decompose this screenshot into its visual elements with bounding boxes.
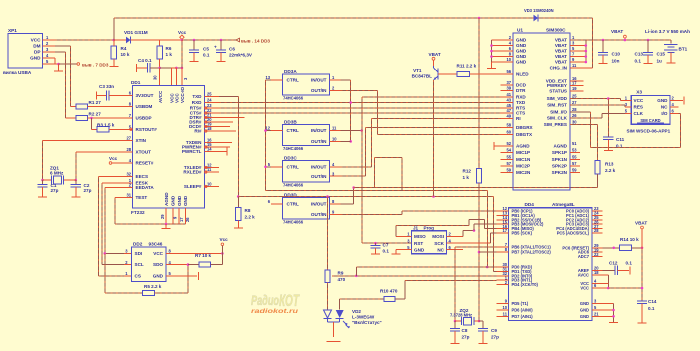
svg-text:VD3 1SM0240N: VD3 1SM0240N [524, 8, 554, 13]
ground below C11 [604, 150, 613, 152]
capacitor C7 0.1 [371, 243, 390, 254]
wire CTS [219, 112, 501, 114]
svg-text:DBGRX: DBGRX [516, 125, 534, 130]
svg-text:L-3WEGW: L-3WEGW [352, 315, 375, 320]
svg-text:1 k: 1 k [166, 52, 173, 57]
svg-text:28: 28 [126, 147, 131, 152]
svg-text:59: 59 [506, 168, 511, 173]
svg-text:выв . 7 DD3: выв . 7 DD3 [82, 63, 109, 68]
svg-text:93C46: 93C46 [149, 242, 163, 247]
svg-text:56: 56 [506, 69, 511, 74]
wire RTS [219, 107, 501, 109]
svg-text:R7 10 k: R7 10 k [195, 253, 212, 258]
wire XP1 DM vertical [55, 46, 71, 107]
svg-text:SIM_RST: SIM_RST [547, 103, 567, 108]
node DD2 SDI junction [103, 252, 106, 255]
wire VCC from XP1 pin1 [55, 39, 114, 41]
svg-text:R14 10 k: R14 10 k [620, 237, 639, 242]
wire VD3 to CHG_IN [570, 18, 592, 68]
capacitor C6 22mk electrolytic [214, 39, 253, 61]
wire DD3B in [341, 129, 363, 132]
svg-text:C5: C5 [203, 47, 209, 52]
svg-text:VCC: VCC [31, 38, 42, 43]
svg-text:BC847BL: BC847BL [412, 74, 433, 79]
svg-text:17: 17 [179, 217, 184, 222]
node PB7 junction [478, 251, 497, 254]
svg-text:R5 2.2 k: R5 2.2 k [144, 284, 162, 289]
svg-text:74HC4066: 74HC4066 [283, 219, 304, 224]
svg-text:PB5 (SCK): PB5 (SCK) [512, 231, 533, 236]
svg-text:GND: GND [183, 195, 188, 206]
wire DD1 RXD to U1 TXD [219, 102, 501, 104]
svg-text:OUT/IN: OUT/IN [311, 139, 327, 144]
resistor R9 470 [325, 197, 346, 310]
svg-text:28: 28 [572, 107, 577, 112]
svg-text:R2 27: R2 27 [89, 112, 102, 117]
IC DD1 FT232BM [126, 75, 219, 222]
svg-text:GND: GND [414, 247, 425, 252]
svg-text:SIM_PRES: SIM_PRES [544, 122, 567, 127]
svg-text:59: 59 [572, 168, 577, 173]
resistor R13 2.2k [595, 161, 616, 188]
wire Vcc down to rail [181, 40, 183, 68]
wire SIM_PRES to R13 [570, 124, 598, 160]
svg-text:Радио: Радио [251, 293, 279, 308]
wire DD3D out to PB0 [341, 211, 497, 215]
svg-text:10: 10 [207, 182, 212, 187]
IC DD2 93C46 [125, 242, 171, 282]
svg-text:27p: 27p [51, 188, 59, 193]
wire XTIN to crystal [43, 141, 133, 181]
svg-text:CS: CS [135, 274, 141, 279]
svg-text:47: 47 [506, 108, 511, 113]
svg-text:GND: GND [516, 38, 527, 43]
wire VCC rail above DD1 [160, 67, 184, 70]
svg-text:VBAT: VBAT [555, 60, 567, 65]
svg-text:X3: X3 [636, 90, 642, 95]
svg-text:AVCC: AVCC [158, 90, 163, 103]
resistor R5 2.2k [105, 253, 188, 295]
svg-text:C11: C11 [616, 137, 625, 142]
capacitor C12 0.1 [603, 261, 633, 276]
wire U1 VDD_EXT/PWRKEY/STATUS stubs [570, 81, 584, 91]
svg-text:26: 26 [572, 113, 577, 118]
ground below C5 [190, 61, 199, 63]
svg-text:"Вкл/Статус": "Вкл/Статус" [352, 320, 382, 325]
svg-text:51: 51 [572, 141, 577, 146]
svg-text:DD3C: DD3C [284, 156, 297, 161]
ground below C8 [451, 343, 460, 345]
ground at DD2 GND [166, 272, 199, 280]
svg-text:GND: GND [580, 301, 589, 306]
capacitor C1 27p [37, 180, 58, 197]
connector X3 SIM card [621, 90, 679, 134]
svg-text:1u: 1u [657, 59, 663, 64]
svg-text:7.3728 MHz: 7.3728 MHz [450, 312, 472, 317]
svg-text:NC: NC [437, 247, 444, 252]
svg-text:AGND: AGND [516, 144, 530, 149]
svg-text:GND: GND [516, 54, 527, 59]
svg-text:NLED: NLED [516, 72, 529, 77]
svg-text:R3 1.5 k: R3 1.5 k [97, 123, 115, 128]
svg-text:PWRKEY: PWRKEY [547, 83, 567, 88]
svg-text:DD1: DD1 [131, 80, 141, 85]
wire DD1 TXD net [219, 97, 238, 197]
svg-text:NC: NC [661, 105, 668, 110]
wire TXD net to PD1 [238, 195, 496, 271]
power symbol Vcc at RESET# [109, 156, 133, 164]
wire RST to J1 [362, 242, 412, 245]
watermark RadioKOT [251, 291, 300, 315]
svg-text:TXD: TXD [192, 94, 202, 99]
ground DD4 [609, 322, 618, 324]
svg-text:17: 17 [502, 228, 507, 233]
resistor R7 10k [166, 253, 222, 267]
svg-text:STATUS: STATUS [549, 89, 567, 94]
svg-text:CLK: CLK [634, 111, 644, 116]
svg-text:27: 27 [126, 136, 131, 141]
svg-text:SCK: SCK [434, 241, 444, 246]
svg-text:SIM300C: SIM300C [546, 28, 566, 33]
svg-text:SDI: SDI [135, 251, 143, 256]
svg-text:RST: RST [414, 241, 423, 246]
svg-text:PB7 (XTAL2/TOSC2): PB7 (XTAL2/TOSC2) [512, 250, 552, 255]
wire EECS to DD2 CS [98, 177, 132, 277]
svg-text:RXD: RXD [516, 94, 526, 99]
svg-text:GND: GND [153, 274, 164, 279]
wire PWREN stub [219, 146, 230, 148]
ground below C10 [599, 63, 608, 65]
wire PD0 horizontal [356, 266, 496, 268]
wire DCD stub [219, 126, 230, 128]
svg-text:R1 27: R1 27 [89, 100, 102, 105]
wire VT1 emitter down [433, 80, 435, 197]
wire U1 RXD jog [362, 97, 501, 243]
svg-text:C14: C14 [648, 299, 657, 304]
svg-text:55: 55 [572, 154, 577, 159]
svg-text:R4: R4 [121, 46, 127, 51]
wire VCC stubs into DD1 top pins [160, 68, 182, 86]
svg-text:RES: RES [634, 105, 643, 110]
svg-text:10: 10 [332, 137, 337, 142]
power symbol VBAT at R14 [635, 221, 647, 248]
analog switch DD3B 74HC4066 [265, 120, 340, 151]
svg-text:OUT/IN: OUT/IN [311, 88, 327, 93]
svg-text:IN/OUT: IN/OUT [311, 128, 327, 133]
svg-text:49: 49 [506, 114, 511, 119]
svg-text:OUT/IN: OUT/IN [311, 174, 327, 179]
svg-text:CTRL: CTRL [287, 164, 299, 169]
svg-text:24: 24 [207, 98, 212, 103]
battery BT1 [664, 40, 688, 63]
svg-text:I/O: I/O [661, 111, 668, 116]
wire TEST to ground rail [115, 197, 185, 224]
svg-text:58: 58 [506, 123, 511, 128]
svg-text:R12: R12 [463, 169, 472, 174]
svg-text:DD3B: DD3B [284, 120, 297, 125]
svg-text:SLEEP#: SLEEP# [184, 184, 202, 189]
svg-text:RI#: RI# [194, 129, 202, 134]
IC DD4 Atmega8L [497, 202, 603, 321]
connector XP1 (USB-A socket) [3, 28, 55, 75]
ground below R4 [109, 62, 118, 67]
capacitor C11 0.1 [603, 99, 625, 151]
svg-text:Atmega8L: Atmega8L [552, 202, 575, 207]
svg-text:SIM_VDD: SIM_VDD [547, 96, 568, 101]
svg-text:19: 19 [572, 86, 577, 91]
svg-text:C10: C10 [612, 52, 621, 57]
capacitor C8 27p [450, 321, 470, 343]
node C4/R6 junction [158, 67, 161, 70]
svg-text:C7: C7 [383, 243, 389, 248]
svg-text:SIM_CLK: SIM_CLK [547, 116, 568, 121]
capacitor C5 0.1 [189, 39, 210, 61]
svg-text:Vcc: Vcc [220, 237, 229, 242]
wire DSR stub [219, 121, 233, 123]
svg-text:BT1: BT1 [679, 47, 688, 52]
svg-text:11: 11 [207, 167, 212, 172]
power symbol Vcc (top) [178, 30, 187, 41]
svg-text:52: 52 [506, 141, 511, 146]
wire DD2 VCC to Vcc [166, 252, 224, 255]
node Vcc junction [181, 39, 184, 42]
svg-text:3V3OUT: 3V3OUT [136, 93, 154, 98]
svg-text:MIC1N: MIC1N [516, 157, 531, 162]
svg-text:DBGTX: DBGTX [516, 132, 533, 137]
svg-text:PD4 (XCK/T0): PD4 (XCK/T0) [512, 282, 539, 287]
wire VBAT vertical [478, 18, 480, 169]
svg-text:CHG_IN: CHG_IN [550, 65, 568, 70]
ground below C1 [38, 196, 47, 198]
svg-text:29: 29 [160, 214, 165, 219]
wire EEDATA to DD2 SDI [105, 187, 133, 253]
svg-text:IN/OUT: IN/OUT [311, 164, 327, 169]
svg-text:VBAT: VBAT [429, 52, 441, 57]
svg-text:57: 57 [572, 161, 577, 166]
svg-text:0.1: 0.1 [203, 53, 210, 58]
capacitor C10 10n [598, 40, 621, 64]
svg-text:VCC: VCC [174, 93, 179, 103]
svg-text:54: 54 [506, 148, 511, 153]
svg-text:MOSI: MOSI [432, 234, 444, 239]
svg-text:RSTOUT#: RSTOUT# [136, 127, 158, 132]
ground below C2 [71, 196, 80, 198]
svg-text:6 MHz: 6 MHz [50, 171, 64, 176]
power symbol Vcc at R7 [220, 237, 229, 265]
svg-text:выв . 14 DD3: выв . 14 DD3 [241, 39, 270, 44]
svg-text:VD2: VD2 [352, 309, 361, 314]
svg-text:DTR: DTR [516, 88, 526, 93]
svg-text:R8: R8 [245, 208, 251, 213]
svg-text:Vcc: Vcc [178, 30, 187, 35]
svg-text:GND: GND [171, 195, 176, 206]
svg-text:0.1: 0.1 [635, 59, 642, 64]
svg-text:USBDM: USBDM [136, 104, 153, 109]
svg-text:VBAT: VBAT [635, 221, 647, 226]
svg-text:USBDP: USBDP [136, 116, 152, 121]
svg-text:27p: 27p [462, 335, 470, 340]
wire EESK to DD2 SCL [102, 183, 133, 265]
wire CTRL bus vertical [264, 80, 271, 191]
transistor VT1 BC847BL [412, 66, 438, 80]
capacitor C15 1u [657, 52, 666, 64]
svg-text:RXD: RXD [192, 100, 202, 105]
svg-text:C4 0.1: C4 0.1 [138, 58, 152, 63]
wire SIM_RST to X3 [570, 105, 625, 107]
svg-text:SPK2N: SPK2N [552, 170, 568, 175]
wire U1 VBAT stubs [570, 40, 587, 63]
resistor R12 1k [463, 169, 482, 184]
svg-text:74HC4066: 74HC4066 [283, 182, 304, 187]
svg-text:RESET#: RESET# [136, 161, 154, 166]
capacitor C14 0.1 [637, 299, 657, 323]
svg-text:PD5 (T1): PD5 (T1) [512, 301, 529, 306]
wire SIM_CLK to X3 [570, 114, 625, 119]
diode VD1 GS1M [114, 30, 182, 43]
svg-text:R10 470: R10 470 [380, 289, 398, 294]
svg-text:+: + [214, 45, 217, 50]
wire Vcc to pin 14 DD3 [182, 38, 271, 43]
svg-text:VCC: VCC [580, 286, 589, 291]
wire DD3A out to U1 DBGTX [341, 91, 501, 135]
ground below C6 [217, 61, 226, 63]
wire U1 GND pins to ground [490, 40, 513, 62]
IC U1 SIM300C GSM module [501, 28, 578, 191]
svg-text:C9: C9 [491, 328, 497, 333]
svg-text:PC5 (ADC5/SCL): PC5 (ADC5/SCL) [557, 231, 590, 236]
capacitor C3 33n [97, 84, 133, 100]
svg-text:GND: GND [516, 60, 527, 65]
ground below C7 [371, 253, 380, 255]
svg-text:VBAT: VBAT [555, 43, 567, 48]
svg-text:VCC: VCC [153, 251, 163, 256]
svg-text:SIM_I/O: SIM_I/O [550, 109, 567, 114]
wire CTRL net to PD0 [266, 191, 489, 269]
wire SIM_IO loop to X3 [570, 112, 681, 148]
svg-text:RXLED#: RXLED# [183, 170, 202, 175]
svg-text:TXD: TXD [516, 100, 526, 105]
svg-text:DD3A: DD3A [284, 69, 297, 74]
svg-text:C13: C13 [635, 52, 644, 57]
ground below BT1 [666, 62, 675, 64]
svg-text:EEDATA: EEDATA [136, 185, 155, 190]
svg-text:2.2 k: 2.2 k [245, 215, 256, 220]
svg-text:0.1: 0.1 [626, 261, 633, 266]
svg-text:18: 18 [594, 270, 599, 275]
svg-text:22mk*6,3V: 22mk*6,3V [229, 53, 253, 58]
wire RI stub [219, 130, 236, 132]
label Li-ion battery [645, 29, 690, 34]
svg-text:60: 60 [506, 129, 511, 134]
svg-text:SDO: SDO [153, 262, 163, 267]
svg-text:2.2 k: 2.2 k [605, 168, 616, 173]
node VBAT rail top [478, 17, 481, 20]
svg-text:RI: RI [516, 116, 521, 121]
node junction R4/VD1 [113, 39, 116, 42]
svg-text:R11 2.2 k: R11 2.2 k [457, 64, 477, 69]
wire DD3B out [341, 140, 351, 142]
analog switch DD3C 74HC4066 [268, 156, 341, 188]
svg-text:27p: 27p [84, 188, 92, 193]
svg-text:1 k: 1 k [463, 175, 470, 180]
svg-text:0.1: 0.1 [383, 249, 390, 254]
svg-text:вилка USBA: вилка USBA [3, 70, 32, 75]
wire SIM_VDD to X3 [570, 97, 621, 100]
wire MISO to PB4 [396, 220, 497, 237]
wire PB6 to crystal [455, 247, 497, 321]
svg-text:30: 30 [153, 75, 158, 80]
svg-text:SIM CARD: SIM CARD [640, 118, 660, 123]
ground at PWRCTL [209, 148, 228, 156]
svg-text:14: 14 [207, 147, 212, 152]
svg-text:OUT/IN: OUT/IN [311, 212, 327, 217]
svg-text:VBAT: VBAT [555, 38, 567, 43]
svg-text:41: 41 [506, 92, 511, 97]
resistor R4 10k [111, 40, 130, 62]
svg-text:57: 57 [506, 161, 511, 166]
svg-text:10n: 10n [612, 59, 620, 64]
svg-text:55: 55 [506, 154, 511, 159]
svg-text:R13: R13 [605, 162, 614, 167]
svg-text:MIC1P: MIC1P [516, 150, 530, 155]
svg-text:SPK2P: SPK2P [552, 163, 567, 168]
wire PD2 horizontal [332, 267, 497, 277]
svg-text:DD2: DD2 [133, 242, 143, 247]
svg-text:XTOUT: XTOUT [136, 149, 152, 154]
svg-text:IN/OUT: IN/OUT [311, 202, 327, 207]
svg-text:MIC2P: MIC2P [516, 163, 530, 168]
resistor R3 1.5k [90, 117, 132, 132]
svg-text:GND: GND [516, 49, 527, 54]
svg-text:GND: GND [516, 43, 527, 48]
svg-text:470: 470 [338, 277, 346, 282]
svg-text:R6: R6 [166, 46, 172, 51]
svg-text:DCD: DCD [516, 83, 527, 88]
svg-text:GND: GND [657, 98, 668, 103]
wire DD3A in to RXD [341, 80, 352, 143]
wire XP1 GND to ground [43, 58, 109, 71]
svg-text:C6: C6 [229, 47, 235, 52]
wire SIM_PRES long net [354, 187, 598, 189]
svg-text:37: 37 [506, 80, 511, 85]
wire XTOUT to crystal [76, 152, 133, 180]
wire top rail vertical [113, 18, 115, 40]
svg-text:30: 30 [572, 119, 577, 124]
svg-text:C15: C15 [657, 52, 666, 57]
wire U1 MIC stubs [501, 153, 514, 173]
svg-text:GND: GND [580, 314, 589, 319]
crystal ZQ2 7.3728MHz [450, 308, 480, 325]
wire DD3C in to U1 RI [341, 119, 501, 167]
svg-text:GND: GND [580, 308, 589, 313]
resistor R6 1k [157, 40, 172, 68]
svg-text:SPK1N: SPK1N [552, 157, 568, 162]
svg-text:R9: R9 [338, 271, 344, 276]
connector J1 Prog (ISP) [407, 225, 451, 253]
ground below R8 [234, 227, 243, 229]
svg-text:DM: DM [33, 44, 40, 49]
svg-text:21: 21 [594, 312, 599, 317]
ground U1 GND [487, 62, 496, 69]
svg-text:39: 39 [506, 86, 511, 91]
wire SCK to PB5 [447, 233, 497, 243]
svg-text:DP: DP [34, 50, 41, 55]
wire DD4 GND pins [603, 304, 615, 323]
svg-text:Vcc: Vcc [109, 156, 118, 161]
wire VBAT rail [570, 39, 671, 42]
svg-text:26: 26 [185, 217, 190, 222]
svg-text:C3 33n: C3 33n [99, 84, 114, 89]
